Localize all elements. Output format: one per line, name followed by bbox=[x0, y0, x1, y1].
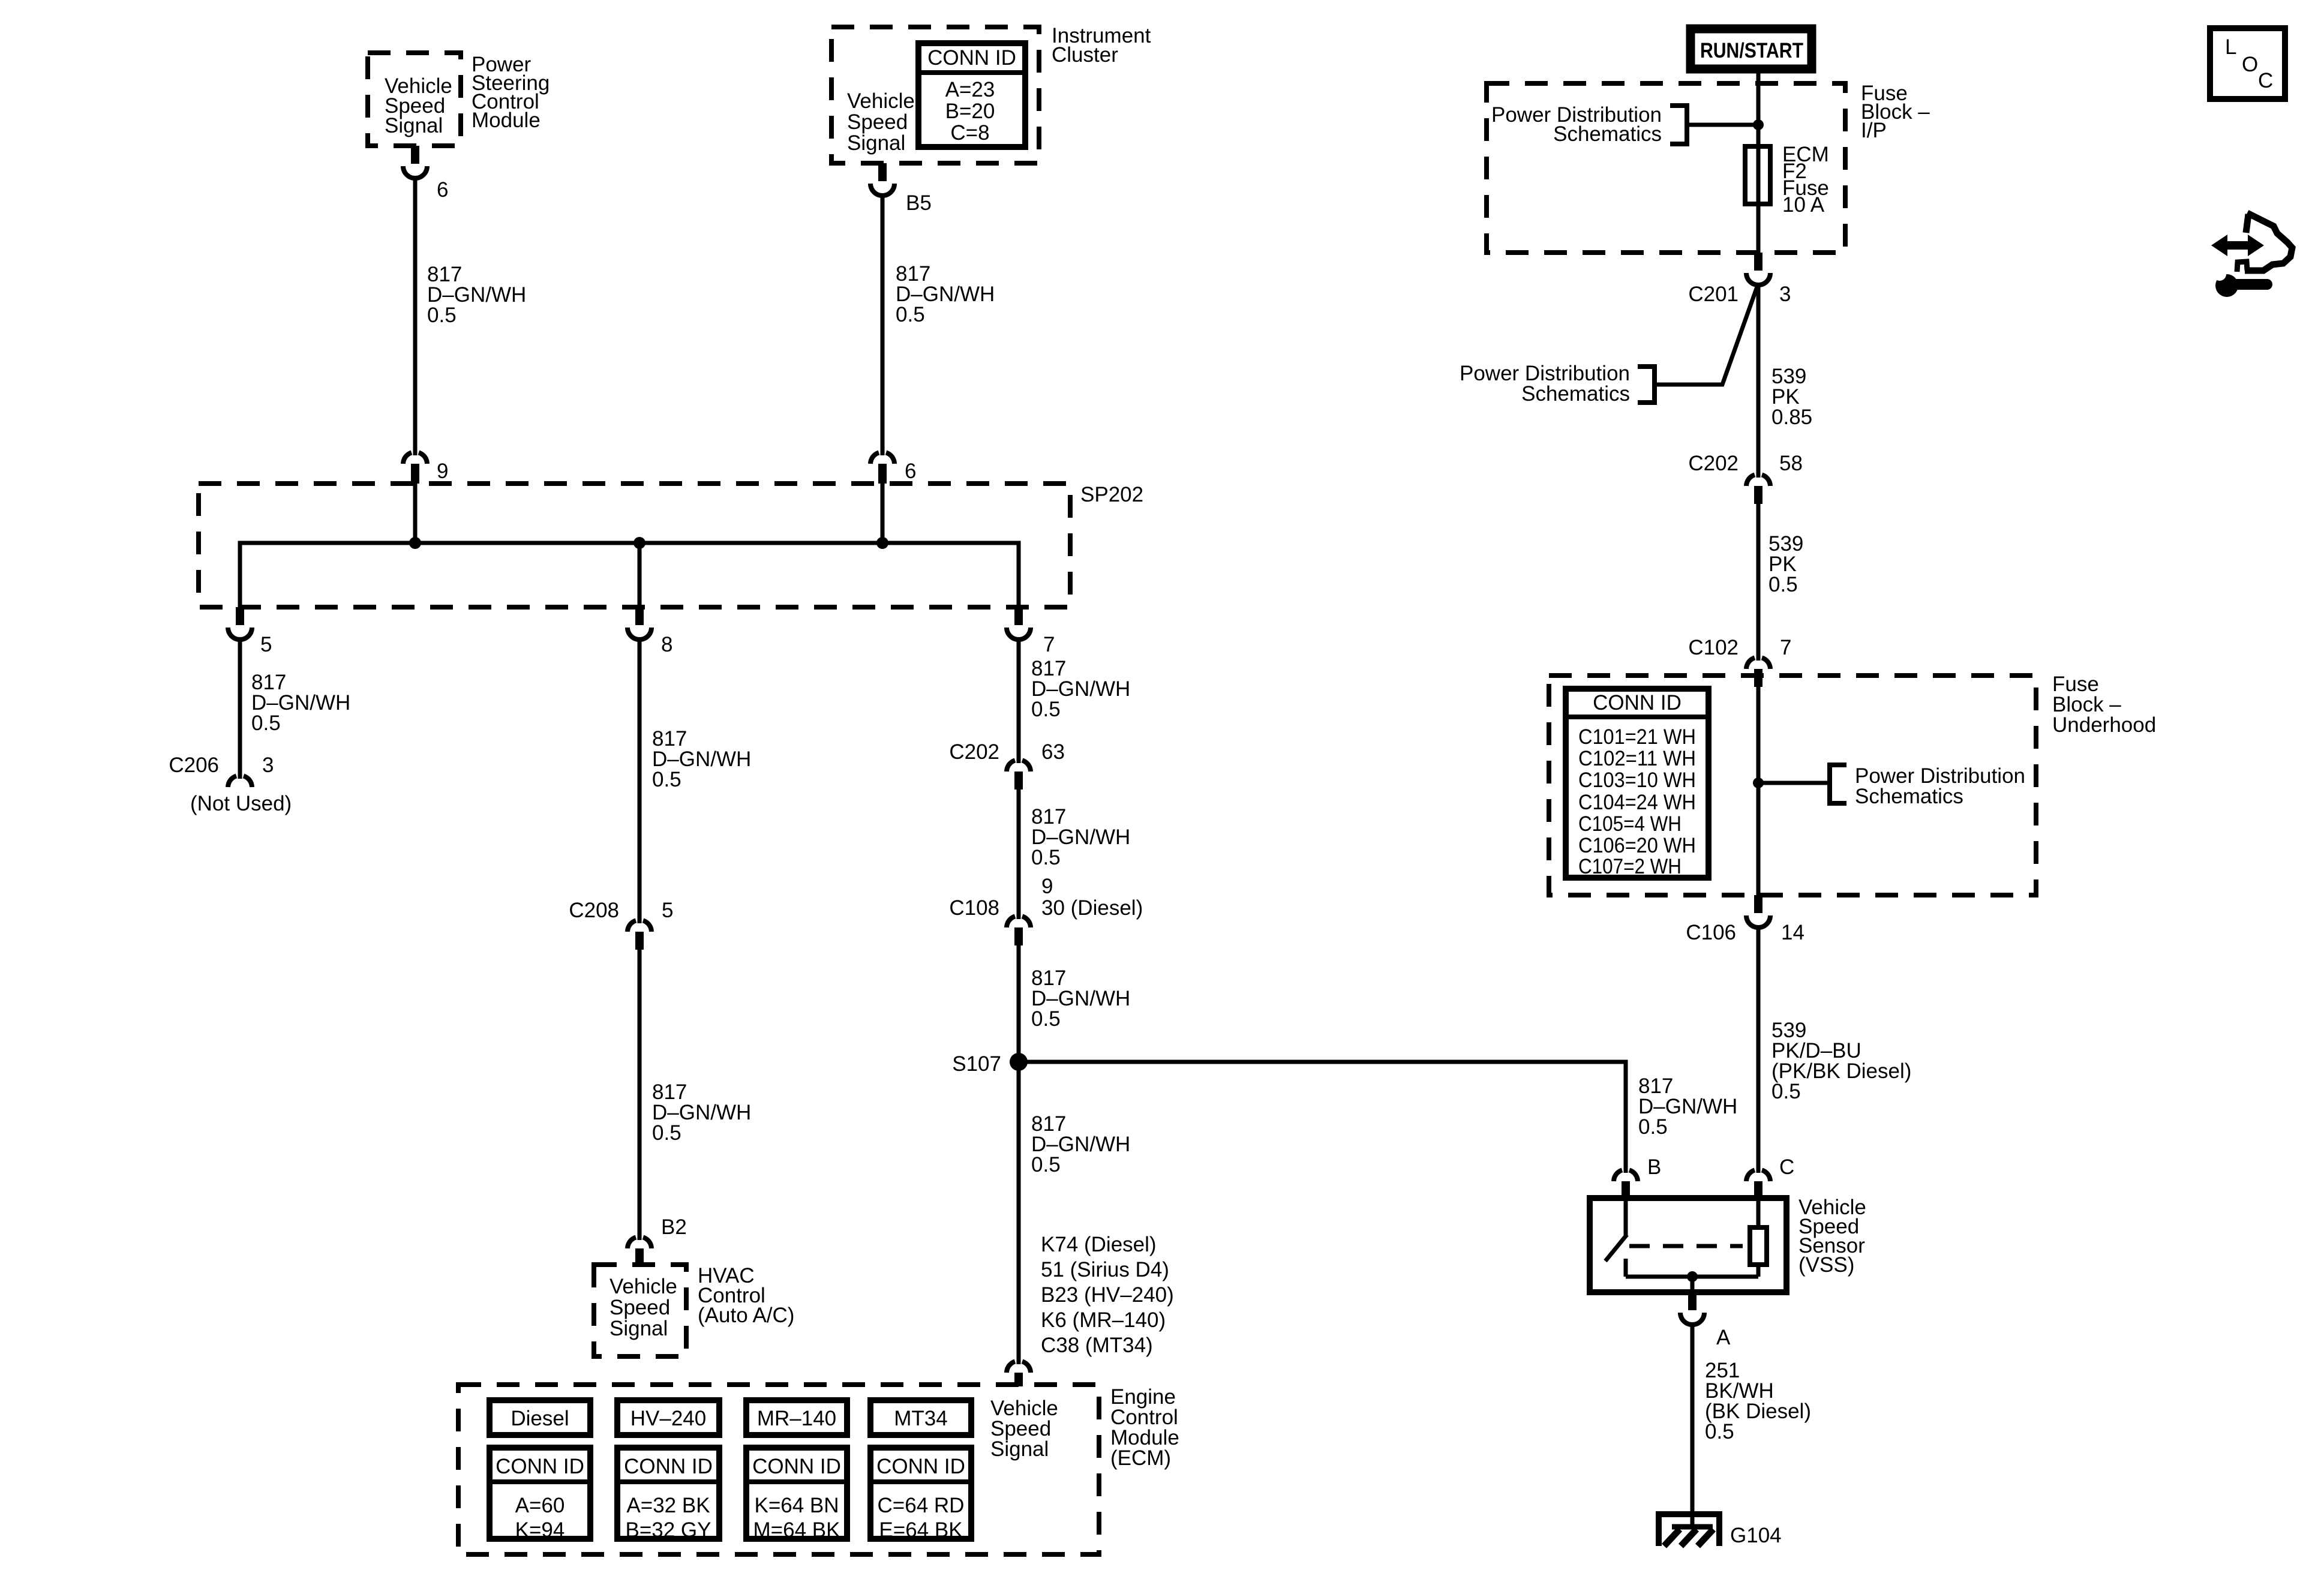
bracket to Power Distribution Schematics (I/P) bbox=[1670, 106, 1687, 144]
svg-text:C: C bbox=[1779, 1155, 1794, 1179]
icon: LOC box (top right) bbox=[2210, 28, 2285, 99]
svg-text:9: 9 bbox=[1041, 875, 1053, 898]
splice S107 bbox=[952, 1052, 1028, 1076]
connector pin B2 (HVAC Control) bbox=[627, 1215, 687, 1266]
svg-text:C206: C206 bbox=[169, 754, 219, 777]
svg-text:A=32 BK: A=32 BK bbox=[626, 1494, 710, 1517]
svg-text:CONN ID: CONN ID bbox=[927, 46, 1016, 70]
svg-text:CONN ID: CONN ID bbox=[624, 1455, 713, 1478]
CONN ID table (Underhood): C101..C107 bbox=[1566, 689, 1709, 878]
svg-text:(Auto A/C): (Auto A/C) bbox=[698, 1304, 794, 1327]
wire: 817 D-GN/WH from SP202 pin 7 to C202-63 bbox=[1017, 637, 1021, 763]
svg-text:C38 (MT34): C38 (MT34) bbox=[1041, 1334, 1153, 1357]
svg-text:C208: C208 bbox=[569, 899, 619, 922]
svg-text:0.5: 0.5 bbox=[1768, 573, 1798, 596]
svg-text:Cluster: Cluster bbox=[1052, 43, 1118, 67]
connector pin 5 (SP202 bottom left) bbox=[228, 607, 272, 656]
svg-text:B=32 GY: B=32 GY bbox=[625, 1518, 711, 1542]
wire: 539 PK 0.85 from C201 to C202-58 bbox=[1756, 283, 1761, 478]
connector pin 9 (SP202 top, from PS) bbox=[403, 452, 448, 484]
svg-text:51 (Sirius D4): 51 (Sirius D4) bbox=[1041, 1258, 1169, 1281]
value label: 817 D-GN/WH 0.5 (VSS B branch) bbox=[1638, 1074, 1737, 1139]
wire: 817 D-GN/WH from S107 down to ECM bbox=[1017, 1062, 1021, 1364]
svg-text:C106: C106 bbox=[1686, 921, 1736, 944]
svg-text:Signal: Signal bbox=[990, 1437, 1049, 1461]
variant box: MR-140 bbox=[746, 1400, 847, 1435]
label: HVAC Control (Auto A/C) bbox=[698, 1264, 794, 1327]
wire: 817 D-GN/WH from C202-63 to C108 bbox=[1017, 789, 1021, 919]
svg-text:5: 5 bbox=[662, 899, 673, 922]
wire: 817 D-GN/WH from C208 to HVAC pin B2 bbox=[638, 950, 642, 1240]
connector C208 pin 5 (in-line) bbox=[569, 899, 673, 950]
svg-text:K6 (MR–140): K6 (MR–140) bbox=[1041, 1308, 1166, 1332]
svg-text:C102: C102 bbox=[1688, 636, 1739, 659]
junction on fuse wire bbox=[1753, 119, 1764, 130]
svg-text:Schematics: Schematics bbox=[1553, 122, 1662, 146]
svg-text:C104=24 WH: C104=24 WH bbox=[1578, 791, 1696, 814]
svg-text:CONN ID: CONN ID bbox=[752, 1455, 841, 1478]
svg-text:B23 (HV–240): B23 (HV–240) bbox=[1041, 1283, 1174, 1307]
label: Power Distribution Schematics (Underhood) bbox=[1855, 764, 2025, 808]
svg-text:B: B bbox=[1647, 1155, 1661, 1179]
wire: SP202 middle drop bbox=[638, 543, 642, 607]
connector pin C (VSS) bbox=[1746, 1155, 1794, 1199]
svg-text:5: 5 bbox=[260, 633, 272, 656]
svg-text:Signal: Signal bbox=[609, 1317, 668, 1340]
switch inside VSS bbox=[1605, 1198, 1627, 1277]
svg-text:C107=2 WH: C107=2 WH bbox=[1578, 855, 1682, 878]
label: Engine Control Module (ECM) bbox=[1110, 1385, 1179, 1470]
svg-text:B5: B5 bbox=[906, 191, 932, 215]
svg-text:C106=20 WH: C106=20 WH bbox=[1578, 834, 1696, 857]
svg-text:Speed: Speed bbox=[847, 110, 908, 134]
module: Instrument Cluster (dashed box, Vehicle Speed Signal) bbox=[831, 27, 1039, 163]
bracket to Power Distribution Schematics (C201) bbox=[1638, 367, 1655, 403]
svg-text:63: 63 bbox=[1041, 740, 1065, 764]
value label: 817 D-GN/WH 0.5 (right branch upper) bbox=[1031, 657, 1130, 721]
connector pin 7 (SP202 bottom right) bbox=[1007, 607, 1055, 656]
svg-text:0.5: 0.5 bbox=[1031, 1153, 1061, 1176]
svg-text:C202: C202 bbox=[949, 740, 999, 764]
svg-text:K74 (Diesel): K74 (Diesel) bbox=[1041, 1233, 1157, 1256]
dashed actuator line inside VSS bbox=[1629, 1244, 1743, 1248]
wire: 817 D-GN/WH from C108 to splice S107 bbox=[1017, 945, 1021, 1062]
module: HVAC Control (dashed box, Vehicle Speed Signal) bbox=[594, 1265, 686, 1356]
svg-text:0.5: 0.5 bbox=[1031, 1007, 1061, 1031]
value label: 817 D-GN/WH 0.5 (PS branch) bbox=[427, 263, 526, 327]
svg-text:30 (Diesel): 30 (Diesel) bbox=[1041, 896, 1143, 920]
svg-text:I/P: I/P bbox=[1861, 119, 1887, 142]
component: Fuse Block - Underhood (dashed box) bbox=[1549, 676, 2036, 895]
svg-text:8: 8 bbox=[661, 633, 672, 656]
connector pin 6 (Power Steering Control Module) bbox=[403, 146, 448, 202]
svg-text:C=8: C=8 bbox=[950, 121, 989, 145]
variant box: HV-240 bbox=[617, 1400, 719, 1435]
svg-text:Schematics: Schematics bbox=[1521, 382, 1630, 406]
wire: through Fuse Block Underhood bbox=[1756, 687, 1761, 895]
svg-text:0.5: 0.5 bbox=[1771, 1080, 1801, 1103]
svg-text:C: C bbox=[2258, 69, 2273, 92]
value label: 817 D-GN/WH 0.5 (ECM branch) bbox=[1031, 1112, 1130, 1176]
wire: junction to VSS bottom edge bbox=[1691, 1277, 1695, 1292]
icon: component locator (arrow, outline, wrench) bbox=[2211, 213, 2292, 297]
svg-text:C103=10 WH: C103=10 WH bbox=[1578, 769, 1696, 792]
connector C201 pin 3 bbox=[1688, 253, 1791, 306]
svg-text:L: L bbox=[2225, 35, 2236, 59]
svg-text:Schematics: Schematics bbox=[1855, 785, 1963, 808]
wire: RUN/START down into Fuse Block I/P bbox=[1756, 69, 1761, 253]
component: Fuse Block - I/P (dashed box) bbox=[1487, 83, 1845, 253]
connector into ECM (in-line at box edge) bbox=[1007, 1361, 1031, 1386]
junction in Fuse Block Underhood bbox=[1753, 778, 1764, 788]
wire: 817 D-GN/WH from SP202 pin 8 to C208 bbox=[638, 637, 642, 923]
connector C206 pin 3 (not used) bbox=[169, 754, 292, 815]
svg-text:S107: S107 bbox=[952, 1052, 1001, 1076]
pin labels: K74 (Diesel) / 51 (Sirius D4) / B23 (HV-240) / K6 (MR-140) / C38 (MT34) bbox=[1041, 1233, 1174, 1357]
svg-text:E=64 BK: E=64 BK bbox=[879, 1518, 962, 1542]
junction: middle drop on bus bbox=[633, 537, 645, 549]
svg-text:0.5: 0.5 bbox=[1638, 1115, 1668, 1139]
connector pin 8 (SP202 bottom middle) bbox=[627, 607, 672, 656]
CONN ID table (MT34): C=64 RD E=64 BK bbox=[870, 1448, 971, 1542]
svg-text:CONN ID: CONN ID bbox=[496, 1455, 584, 1478]
svg-text:58: 58 bbox=[1779, 452, 1803, 475]
module: Engine Control Module ECM (dashed box) bbox=[458, 1385, 1099, 1554]
svg-text:G104: G104 bbox=[1730, 1524, 1782, 1547]
svg-text:C108: C108 bbox=[949, 896, 999, 920]
value label: 817 D-GN/WH 0.5 (middle branch upper) bbox=[652, 727, 751, 791]
connector C102 pin 7 (at Fuse Block Underhood) bbox=[1688, 636, 1791, 687]
svg-text:Signal: Signal bbox=[385, 114, 443, 137]
CONN ID table (MR-140): K=64 BN M=64 BK bbox=[746, 1448, 847, 1542]
svg-text:C=64 RD: C=64 RD bbox=[878, 1494, 965, 1517]
connector pin 6 (SP202 top, from Instrument Cluster) bbox=[870, 452, 916, 484]
connector C202 pin 63 (in-line) bbox=[949, 740, 1065, 789]
label: Instrument Cluster bbox=[1052, 24, 1151, 67]
svg-text:RUN/START: RUN/START bbox=[1700, 39, 1803, 62]
svg-text:C102=11 WH: C102=11 WH bbox=[1578, 747, 1696, 770]
splice pack SP202 (dashed box) bbox=[199, 483, 1143, 607]
wire: junction to bracket (Underhood) bbox=[1758, 781, 1830, 785]
svg-text:7: 7 bbox=[1043, 633, 1055, 656]
svg-text:0.5: 0.5 bbox=[652, 1121, 681, 1145]
wire: 817 D-GN/WH 0.5 from PS pin 6 down to SP202 pin 9 bbox=[413, 176, 418, 455]
wire: 539 PK 0.5 from C202-58 to C102 bbox=[1756, 504, 1761, 661]
wire: IC wire inside SP202 bbox=[881, 484, 885, 543]
svg-text:MR–140: MR–140 bbox=[757, 1407, 836, 1430]
label: Fuse Block - Underhood bbox=[2052, 673, 2156, 737]
svg-text:C101=21 WH: C101=21 WH bbox=[1578, 725, 1696, 749]
pin label 9 / 30 (Diesel) at C108 bbox=[949, 875, 1143, 920]
svg-text:SP202: SP202 bbox=[1080, 483, 1143, 506]
ground G104 bbox=[1656, 1511, 1782, 1547]
value label: 817 D-GN/WH 0.5 (middle branch lower) bbox=[652, 1080, 751, 1145]
wire: bracket to fuse wire bbox=[1687, 123, 1758, 127]
label: Power Distribution Schematics (I/P) bbox=[1491, 103, 1662, 146]
svg-text:0.85: 0.85 bbox=[1771, 406, 1812, 429]
variant box: Diesel bbox=[490, 1400, 590, 1435]
svg-text:M=64 BK: M=64 BK bbox=[753, 1518, 840, 1542]
svg-text:6: 6 bbox=[437, 178, 448, 202]
svg-text:K=94: K=94 bbox=[515, 1518, 565, 1542]
label: Power Distribution Schematics (C201) bbox=[1460, 362, 1630, 406]
svg-text:Vehicle: Vehicle bbox=[847, 89, 915, 113]
svg-text:3: 3 bbox=[1779, 283, 1791, 306]
resistor inside VSS bbox=[1750, 1198, 1767, 1277]
wire: 539 PK/D-BU from C106 to VSS pin C bbox=[1756, 925, 1761, 1173]
wire: 251 BK/WH from VSS pin A to ground G104 bbox=[1691, 1322, 1695, 1527]
wire: PS wire inside SP202 bbox=[413, 484, 418, 543]
svg-text:A=60: A=60 bbox=[515, 1494, 565, 1517]
svg-text:Module: Module bbox=[472, 109, 541, 132]
svg-text:A=23: A=23 bbox=[945, 78, 995, 101]
svg-text:0.5: 0.5 bbox=[427, 304, 457, 327]
wire: SP202 internal bus bbox=[240, 543, 1019, 607]
connector C202 pin 58 (in-line) bbox=[1688, 452, 1803, 504]
wire: 817 D-GN/WH 0.5 from IC pin B5 down to SP202 pin 6 bbox=[881, 193, 885, 455]
power feed: RUN/START box bbox=[1691, 29, 1812, 69]
junction: IC wire to bus bbox=[876, 537, 888, 549]
svg-text:Underhood: Underhood bbox=[2052, 713, 2156, 737]
label: Fuse Block - I/P bbox=[1861, 82, 1930, 142]
svg-text:C202: C202 bbox=[1688, 452, 1739, 475]
svg-text:6: 6 bbox=[905, 460, 916, 483]
connector C108 (in-line) bbox=[1007, 916, 1031, 945]
value label: 539 PK/D-BU (PK/BK Diesel) 0.5 bbox=[1771, 1019, 1911, 1103]
svg-text:9: 9 bbox=[437, 460, 448, 483]
connector pin B (VSS) bbox=[1614, 1155, 1661, 1199]
svg-text:CONN ID: CONN ID bbox=[876, 1455, 965, 1478]
wire: 817 D-GN/WH from SP202 pin 5 to C206 bbox=[238, 637, 242, 779]
svg-text:3: 3 bbox=[262, 754, 274, 777]
svg-text:C105=4 WH: C105=4 WH bbox=[1578, 812, 1682, 836]
module: Power Steering Control Module (dashed box, Vehicle Speed Signal) bbox=[368, 53, 461, 146]
svg-text:0.5: 0.5 bbox=[251, 712, 281, 735]
svg-text:0.5: 0.5 bbox=[652, 768, 681, 791]
connector C106 pin 14 bbox=[1686, 895, 1804, 944]
value label: 817 D-GN/WH 0.5 (IC branch) bbox=[896, 262, 995, 326]
label: Vehicle Speed Signal (inside ECM) bbox=[990, 1397, 1058, 1461]
connector pin B5 (Instrument Cluster) bbox=[870, 163, 932, 215]
value label: 539 PK 0.85 bbox=[1771, 365, 1812, 429]
value label: 817 D-GN/WH 0.5 (above S107) bbox=[1031, 966, 1130, 1031]
wire: 817 D-GN/WH from S107 right and down to VSS pin B bbox=[1019, 1062, 1626, 1173]
svg-text:K=64 BN: K=64 BN bbox=[754, 1494, 839, 1517]
svg-text:Signal: Signal bbox=[847, 131, 905, 155]
CONN ID table (Instrument Cluster): A=23 B=20 C=8 bbox=[918, 43, 1025, 147]
svg-text:Diesel: Diesel bbox=[511, 1407, 569, 1430]
svg-text:(Not Used): (Not Used) bbox=[190, 792, 292, 815]
svg-text:0.5: 0.5 bbox=[896, 303, 925, 326]
variant box: MT34 bbox=[870, 1400, 971, 1435]
bracket to Power Distribution Schematics (Underhood) bbox=[1830, 765, 1846, 803]
CONN ID table (Diesel): A=60 K=94 bbox=[490, 1448, 590, 1542]
svg-text:HV–240: HV–240 bbox=[630, 1407, 706, 1430]
junction inside VSS bbox=[1687, 1271, 1698, 1282]
svg-text:0.5: 0.5 bbox=[1031, 846, 1061, 869]
svg-text:Vehicle: Vehicle bbox=[609, 1275, 677, 1298]
svg-text:O: O bbox=[2242, 53, 2258, 76]
svg-text:B=20: B=20 bbox=[945, 100, 995, 123]
value label: 817 D-GN/WH 0.5 (right branch mid) bbox=[1031, 805, 1130, 869]
svg-text:Speed: Speed bbox=[609, 1296, 670, 1319]
wire: diagonal from C201 to Power Distribution bracket bbox=[1655, 287, 1757, 385]
svg-text:(VSS): (VSS) bbox=[1798, 1253, 1854, 1277]
svg-text:14: 14 bbox=[1781, 921, 1804, 944]
svg-text:MT34: MT34 bbox=[894, 1407, 947, 1430]
svg-text:CONN ID: CONN ID bbox=[1593, 691, 1682, 715]
value label: 817 D-GN/WH 0.5 (left branch) bbox=[251, 671, 350, 735]
svg-text:A: A bbox=[1716, 1326, 1731, 1349]
fuse: ECM F2 Fuse 10 A bbox=[1745, 143, 1829, 217]
label: Vehicle Speed Sensor (VSS) bbox=[1798, 1196, 1866, 1277]
svg-text:7: 7 bbox=[1780, 636, 1791, 659]
wire: VSS internal bottom path bbox=[1626, 1275, 1758, 1279]
label: Power Steering Control Module bbox=[472, 53, 550, 132]
svg-text:10 A: 10 A bbox=[1782, 193, 1825, 217]
CONN ID table (HV-240): A=32 BK B=32 GY bbox=[617, 1448, 719, 1542]
value label: 539 PK 0.5 bbox=[1768, 532, 1803, 596]
svg-text:C201: C201 bbox=[1688, 283, 1739, 306]
svg-text:B2: B2 bbox=[661, 1215, 687, 1239]
svg-text:0.5: 0.5 bbox=[1705, 1420, 1734, 1443]
component: Vehicle Speed Sensor VSS (box) bbox=[1590, 1198, 1786, 1292]
junction: PS wire to bus bbox=[409, 537, 421, 549]
value label: 251 BK/WH (BK Diesel) 0.5 bbox=[1705, 1359, 1811, 1443]
svg-text:(ECM): (ECM) bbox=[1110, 1446, 1171, 1470]
connector pin A (VSS bottom) bbox=[1680, 1292, 1731, 1349]
svg-text:0.5: 0.5 bbox=[1031, 698, 1061, 721]
